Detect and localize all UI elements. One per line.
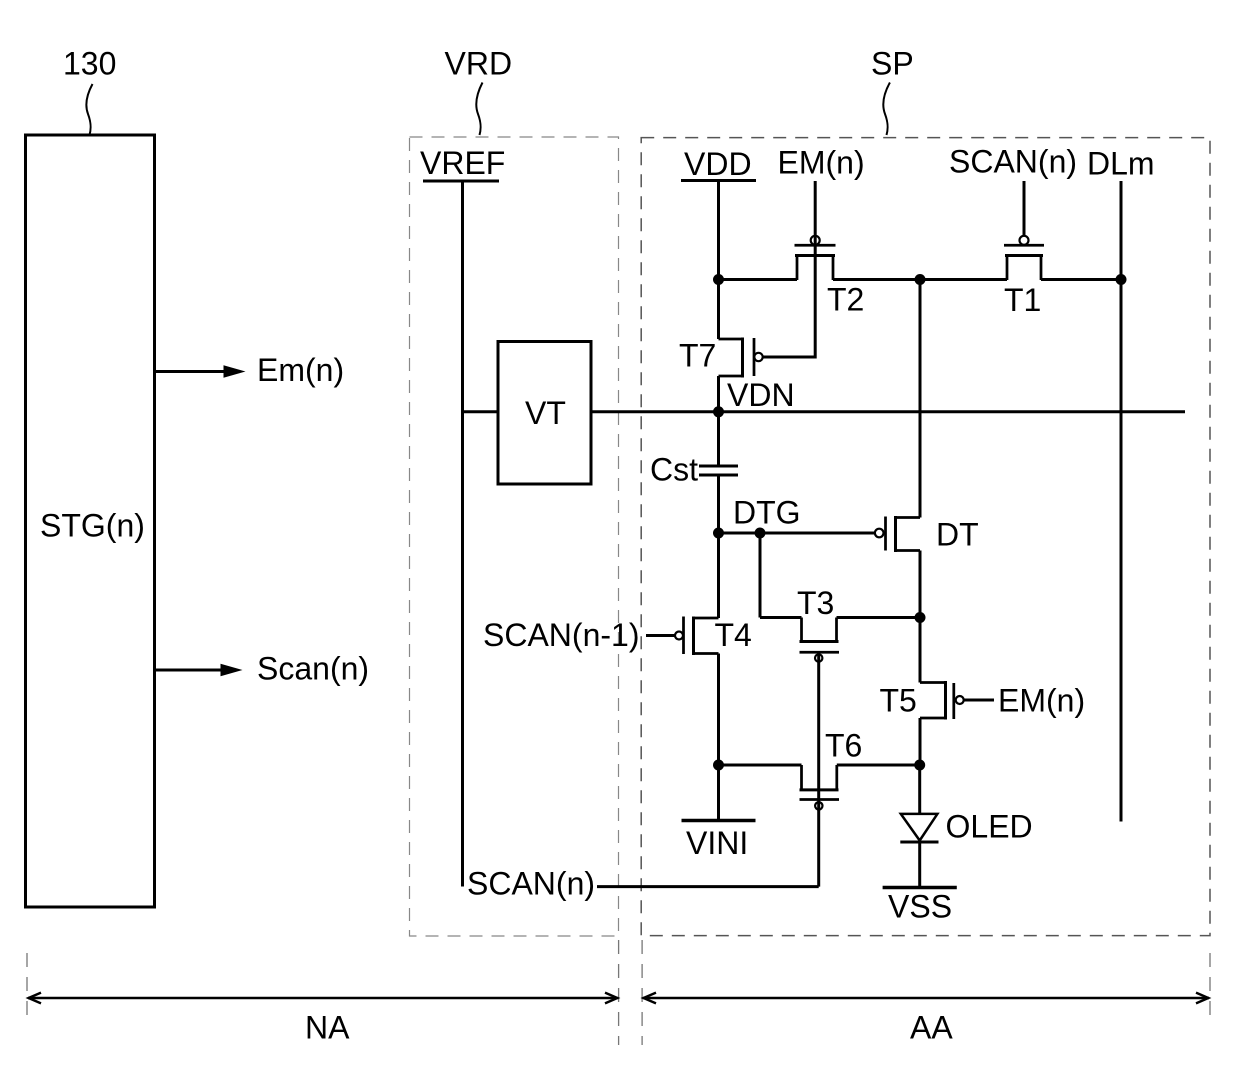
svg-text:T5: T5 [880, 683, 917, 719]
wire DTG branch down to T3 [759, 533, 762, 618]
wire SCAN(n-1) to T4 gate [646, 634, 675, 637]
dimension extension line NA/AA left [618, 940, 620, 1045]
junction OLED node [914, 760, 925, 771]
transistor T6 [719, 765, 920, 810]
wire T7 to Cst [717, 376, 720, 465]
junction VINI row left [713, 760, 724, 771]
junction VDN node [713, 406, 724, 417]
svg-text:STG(n): STG(n) [40, 508, 145, 544]
wire T1 to DLm [1041, 278, 1121, 281]
svg-text:T3: T3 [797, 585, 834, 621]
svg-text:VREF: VREF [420, 145, 505, 181]
svg-text:EM(n): EM(n) [998, 683, 1085, 719]
wire T2 to center node [833, 278, 1007, 281]
svg-text:EM(n): EM(n) [778, 145, 865, 181]
svg-text:DLm: DLm [1087, 146, 1155, 182]
wire VREF to VT [463, 410, 497, 413]
svg-text:SCAN(n): SCAN(n) [467, 866, 595, 902]
wire DTG to T4 [717, 533, 720, 618]
junction DTG branch [755, 528, 766, 539]
transistor T4 [675, 617, 719, 656]
transistor T5 [920, 681, 964, 720]
wire Em(n) output arrow [156, 370, 227, 373]
wire SCAN(n) feed into pixel [597, 885, 819, 888]
svg-text:Scan(n): Scan(n) [257, 651, 369, 687]
svg-text:Em(n): Em(n) [257, 352, 344, 388]
capacitor Cst [699, 466, 738, 475]
svg-text:T6: T6 [825, 728, 862, 764]
svg-text:OLED: OLED [946, 809, 1033, 845]
dimension extension line right [1209, 953, 1211, 1020]
wire to VINI ground [717, 765, 720, 819]
svg-text:NA: NA [305, 1010, 350, 1046]
wire VT output row (VDN net) [591, 410, 1185, 413]
wire SCAN(n) to T1 gate [1023, 181, 1026, 236]
wire DT node to T5 [919, 618, 922, 683]
SP dashed region [641, 138, 1210, 936]
junction DTG left [713, 528, 724, 539]
dimension extension line left [26, 953, 28, 1020]
net SCAN(n) gate column through T6 [817, 654, 820, 887]
ground VSS [883, 886, 957, 890]
wire DT source to T3 node [919, 551, 922, 618]
svg-text:VT: VT [525, 395, 566, 431]
junction DLm row [1116, 274, 1127, 285]
leader squiggle for SP [883, 83, 889, 136]
wire DTG row to DT gate [719, 532, 875, 535]
transistor DT [875, 516, 920, 552]
wire VDD drop [717, 182, 720, 280]
svg-text:SCAN(n): SCAN(n) [949, 144, 1077, 180]
svg-text:DTG: DTG [733, 495, 801, 531]
transistor T7 [719, 280, 763, 378]
svg-text:AA: AA [910, 1010, 953, 1046]
wire Scan(n) output arrow [156, 669, 224, 672]
svg-text:VDN: VDN [727, 377, 795, 413]
svg-text:T2: T2 [827, 282, 864, 318]
wire T3 to DT node [837, 616, 921, 619]
svg-text:T4: T4 [715, 617, 752, 653]
net VREF vertical wire [461, 182, 464, 887]
svg-text:T7: T7 [679, 338, 716, 374]
junction T3-DT node [915, 612, 926, 623]
svg-text:VINI: VINI [686, 825, 748, 861]
VRD dashed region [410, 137, 619, 936]
svg-text:130: 130 [63, 46, 116, 82]
svg-text:SP: SP [871, 46, 914, 82]
block VT [498, 342, 591, 485]
ground VINI [682, 819, 756, 823]
junction VDD row [713, 274, 724, 285]
svg-text:Cst: Cst [650, 452, 698, 488]
net DLm data line [1120, 181, 1123, 822]
wire Cst to DTG [717, 477, 720, 534]
junction center node [915, 274, 926, 285]
svg-text:VDD: VDD [684, 146, 752, 182]
dimension NA arrow [28, 993, 618, 1004]
transistor T2 [795, 236, 836, 280]
dimension AA arrow [643, 993, 1209, 1004]
svg-text:VSS: VSS [888, 889, 952, 925]
wire DT drain column [919, 280, 922, 518]
svg-text:SCAN(n-1): SCAN(n-1) [483, 617, 639, 653]
svg-text:T1: T1 [1004, 282, 1041, 318]
wire T5 gate to EM(n) [964, 699, 994, 702]
svg-text:DT: DT [936, 517, 979, 553]
transistor T1 [1004, 236, 1044, 280]
wire T4 to VINI row [717, 654, 720, 766]
leader squiggle for 130 [86, 84, 92, 135]
leader squiggle for VRD [476, 83, 482, 136]
wire T5 to OLED node [919, 718, 922, 765]
block 130 (gate driver stage box) [26, 135, 155, 907]
VDD supply underline [681, 179, 756, 182]
wire OLED to VSS [918, 842, 921, 886]
transistor T3 [760, 618, 839, 662]
VREF supply underline [423, 180, 499, 183]
svg-text:VRD: VRD [445, 46, 513, 82]
wire VDD row to T2 [719, 278, 798, 281]
dimension extension line NA/AA right [641, 940, 643, 1045]
diode OLED [900, 765, 938, 842]
wire EM(n) gate line to T2 and T7 [763, 181, 816, 357]
